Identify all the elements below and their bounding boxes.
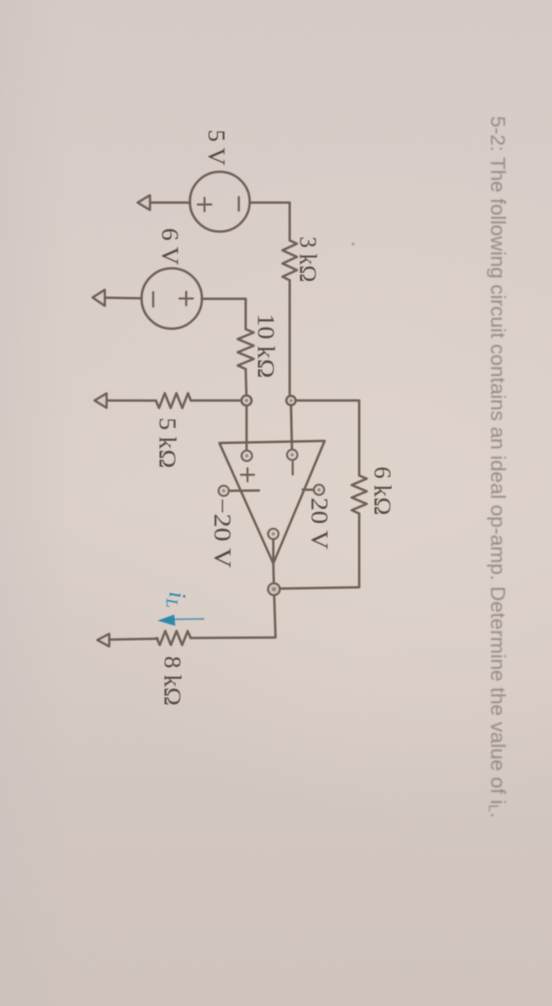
all circuit content drawn in landscape coords then rotated 90deg CW [93, 116, 509, 818]
op-amp U1 triangle [219, 441, 324, 564]
ground arrow A1 [138, 195, 150, 210]
ground arrow A2 [93, 290, 105, 306]
node1 junction ring [242, 396, 252, 406]
wire V2 bottom to arrow [105, 297, 142, 300]
wire output pin to apex [272, 539, 274, 563]
iL arrow tail [174, 618, 204, 620]
pin 2 inverting input speck [291, 453, 294, 456]
wire 3k to node2 [289, 280, 291, 396]
output node speck [272, 587, 276, 591]
wire 10k to node1 [245, 369, 248, 396]
resistor R5 8k zigzag (vertical) [157, 631, 191, 645]
op-amp positive supply wire [303, 488, 313, 491]
node B center speck [290, 399, 293, 402]
wire apex to output junction [272, 564, 275, 584]
node2 junction ring [286, 396, 295, 405]
wire V1 bottom to arrow [150, 201, 190, 203]
iL arrowhead [157, 615, 175, 626]
op-amp minus glyph [292, 462, 294, 475]
V2 plus sign [179, 292, 193, 306]
voltage source V2 6V circle [142, 268, 202, 328]
component labels (serif) [154, 130, 395, 707]
resistor R4 6k zigzag [352, 476, 367, 514]
pin 7 positive supply speck [317, 488, 320, 491]
op-amp inverting input pin [287, 450, 297, 460]
node A center speck [245, 399, 248, 402]
problem statement text [486, 116, 509, 818]
wire 5k to arrow [107, 399, 156, 402]
node1 to 5k resistor wire [191, 399, 242, 401]
op-amp positive supply pin [314, 485, 324, 495]
resistor R3 5k zigzag (vertical) [156, 393, 191, 408]
wire V2 top to 10k corner [202, 299, 246, 329]
output junction node [268, 583, 280, 595]
ground arrow A4 [97, 634, 109, 647]
V2 minus sign [152, 292, 154, 307]
wire node2 to op-amp minus input [290, 406, 293, 450]
op-amp plus glyph [241, 468, 254, 481]
op-amp noninverting input pin [242, 451, 252, 461]
pin 3 noninverting input speck [245, 454, 248, 457]
V1 minus sign [238, 197, 240, 211]
resistor R1 3k zigzag [283, 240, 297, 280]
wire 8k to arrow [109, 638, 157, 641]
op-amp negative supply pin [219, 486, 229, 496]
paper speck [351, 242, 354, 245]
wire 6k to output junction [280, 514, 359, 589]
wire node2 up to feedback [296, 401, 359, 476]
op-amp output pin [268, 529, 278, 539]
V1 plus sign [198, 198, 212, 212]
wire node1 to op-amp plus input [245, 406, 247, 450]
ground arrow A3 [95, 393, 107, 407]
pin 4 negative supply speck [222, 489, 225, 492]
op-amp negative supply wire [229, 489, 259, 492]
resistor R2 10k zigzag [238, 329, 254, 369]
wire junction to 8k branch [191, 596, 276, 639]
pin 6 output speck [272, 532, 275, 535]
wire V1 top to 3k corner [250, 203, 290, 241]
voltage source V1 5V circle [190, 172, 250, 232]
current iL arrow (cyan) [157, 592, 204, 626]
